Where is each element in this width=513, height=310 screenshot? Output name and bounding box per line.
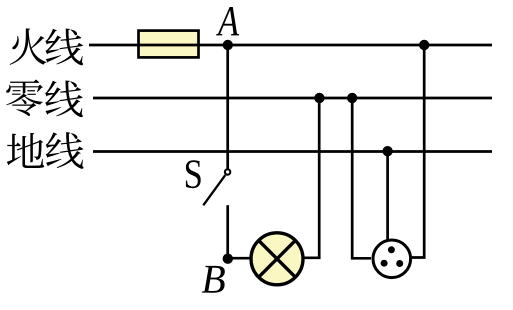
label 火线 char 线	[45, 28, 83, 65]
label 地线 char 地	[7, 133, 44, 168]
node on neutral line for socket wire	[347, 93, 357, 103]
socket earth hole dot	[388, 246, 395, 253]
switch S blade (open)	[203, 175, 225, 205]
label 火线 char 火	[10, 28, 47, 64]
label 零线 char 零	[6, 79, 43, 116]
socket left hole dot	[381, 260, 388, 267]
wire lamp right side up to neutral line	[303, 98, 319, 258]
label B	[202, 266, 225, 293]
label A	[216, 7, 239, 35]
wire from node A down to switch	[226, 45, 229, 169]
wire earth line 地线	[93, 150, 492, 153]
node A junction dot	[223, 40, 233, 50]
socket right hole dot	[396, 260, 403, 267]
label 地线 char 线	[46, 132, 84, 169]
node on earth line for socket wire	[382, 146, 392, 156]
wire neutral line 零线	[93, 97, 492, 100]
wire live line 火线	[89, 44, 492, 47]
label S	[186, 160, 201, 188]
node B junction dot	[223, 254, 233, 264]
switch S pivot circle	[225, 169, 230, 174]
wire node B to lamp	[228, 257, 251, 260]
wire earth node down to socket top	[386, 152, 389, 241]
lamp EL (circle with X)	[251, 233, 303, 285]
label 零线 char 线	[45, 80, 83, 117]
wire neutral node down and right to socket left pin	[352, 98, 371, 258]
node on live line for socket wire	[419, 40, 429, 50]
socket (three-hole outlet)	[373, 240, 411, 278]
node on neutral line for lamp wire	[314, 93, 324, 103]
fuse FU on live wire	[139, 31, 199, 58]
wire switch lower stub down to node B	[226, 205, 229, 259]
wire live node down and left to socket right pin	[411, 45, 424, 258]
